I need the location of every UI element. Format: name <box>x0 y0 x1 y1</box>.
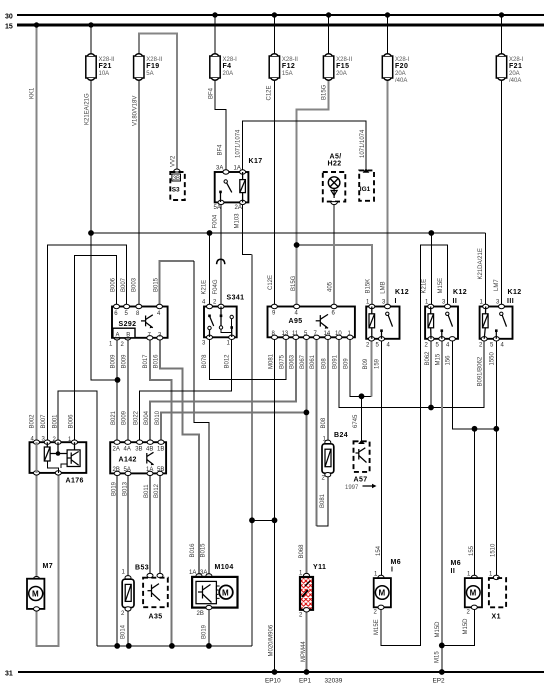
svg-text:B011: B011 <box>144 484 150 498</box>
svg-text:S341: S341 <box>227 295 245 302</box>
svg-text:B013: B013 <box>123 481 129 496</box>
svg-text:V180/V18V: V180/V18V <box>133 96 139 126</box>
svg-text:B08: B08 <box>321 417 327 428</box>
svg-text:1A: 1A <box>189 570 196 576</box>
svg-text:K12: K12 <box>453 289 467 296</box>
svg-text:B006: B006 <box>111 277 117 292</box>
svg-text:B15G: B15G <box>322 84 328 100</box>
svg-text:B007: B007 <box>121 277 127 292</box>
svg-text:B022: B022 <box>133 410 139 425</box>
svg-text:B006: B006 <box>68 414 74 429</box>
svg-text:S292: S292 <box>119 321 137 328</box>
svg-text:M15: M15 <box>435 353 441 365</box>
svg-text:M: M <box>379 589 386 598</box>
svg-text:/40A: /40A <box>395 78 407 84</box>
svg-text:154: 154 <box>376 545 382 556</box>
svg-text:B015: B015 <box>201 543 207 558</box>
svg-text:3B: 3B <box>173 176 180 182</box>
svg-text:M15D: M15D <box>435 621 441 638</box>
svg-text:B062: B062 <box>425 351 431 366</box>
svg-text:IG1: IG1 <box>360 186 371 193</box>
svg-text:A95: A95 <box>289 318 303 325</box>
svg-text:4B: 4B <box>146 447 153 453</box>
svg-text:K21E: K21E <box>202 280 208 295</box>
svg-text:156: 156 <box>446 355 452 366</box>
svg-text:F19: F19 <box>146 63 159 70</box>
svg-text:M103: M103 <box>234 213 240 229</box>
svg-text:B08: B08 <box>321 358 327 369</box>
svg-text:M15E: M15E <box>374 619 380 635</box>
svg-text:3A: 3A <box>216 166 223 172</box>
svg-text:M6: M6 <box>391 559 402 566</box>
svg-text:B009: B009 <box>111 354 117 369</box>
svg-text:F04G: F04G <box>213 279 219 294</box>
svg-text:VV2: VV2 <box>170 155 176 167</box>
svg-text:1A: 1A <box>234 166 241 172</box>
svg-text:Y11: Y11 <box>313 564 326 571</box>
svg-text:20A: 20A <box>509 71 520 77</box>
svg-text:B014: B014 <box>121 624 127 639</box>
svg-text:II: II <box>451 568 456 575</box>
svg-text:B15G: B15G <box>291 275 297 291</box>
svg-text:31: 31 <box>5 671 13 678</box>
svg-text:2A: 2A <box>113 447 120 453</box>
svg-text:B075: B075 <box>280 354 286 369</box>
svg-text:C12E: C12E <box>268 275 274 290</box>
svg-text:MPM44: MPM44 <box>301 641 307 662</box>
svg-text:F15: F15 <box>336 63 349 70</box>
svg-text:1A: 1A <box>146 467 153 473</box>
svg-text:2B: 2B <box>113 467 120 473</box>
svg-text:5B: 5B <box>157 467 164 473</box>
svg-text:M020/M906: M020/M906 <box>269 624 275 656</box>
svg-text:B: B <box>126 332 130 338</box>
svg-text:155: 155 <box>469 545 475 556</box>
svg-text:159: 159 <box>375 358 381 369</box>
svg-text:EP10: EP10 <box>265 678 281 685</box>
svg-text:A35: A35 <box>149 614 163 621</box>
svg-text:BF4: BF4 <box>218 144 224 156</box>
svg-text:B009: B009 <box>122 410 128 425</box>
svg-text:II: II <box>453 298 458 305</box>
svg-text:15: 15 <box>5 24 13 31</box>
svg-text:A176: A176 <box>66 478 84 485</box>
svg-text:B012: B012 <box>154 483 160 498</box>
svg-text:20A: 20A <box>336 71 347 77</box>
svg-text:1997: 1997 <box>345 485 359 491</box>
svg-text:1510: 1510 <box>490 543 496 557</box>
svg-text:I: I <box>395 298 397 305</box>
svg-text:4A: 4A <box>124 447 131 453</box>
svg-text:B53: B53 <box>135 565 149 572</box>
svg-text:B09: B09 <box>363 358 369 369</box>
svg-text:1071/1074: 1071/1074 <box>360 129 366 158</box>
svg-text:F4: F4 <box>223 63 232 70</box>
svg-text:2B: 2B <box>197 611 204 617</box>
svg-text:F004: F004 <box>213 214 219 228</box>
svg-text:A57: A57 <box>354 477 368 484</box>
svg-text:F21: F21 <box>99 63 112 70</box>
svg-text:1B: 1B <box>157 447 164 453</box>
svg-text:B002: B002 <box>30 414 36 429</box>
svg-text:M6: M6 <box>451 560 462 567</box>
svg-text:B091: B091 <box>333 354 339 369</box>
svg-text:EP1: EP1 <box>299 678 312 685</box>
svg-text:B016: B016 <box>190 543 196 558</box>
svg-text:30: 30 <box>5 14 13 21</box>
svg-text:B081: B081 <box>320 493 326 508</box>
svg-text:M: M <box>470 589 477 598</box>
svg-text:B24: B24 <box>334 432 348 439</box>
svg-text:B15K: B15K <box>366 279 372 294</box>
svg-text:KK1: KK1 <box>30 87 36 99</box>
svg-text:K21EA/21G: K21EA/21G <box>85 93 91 125</box>
svg-text:B004: B004 <box>144 410 150 425</box>
svg-text:B021: B021 <box>111 410 117 425</box>
svg-text:/40A: /40A <box>509 78 521 84</box>
svg-text:III: III <box>507 298 514 305</box>
svg-text:S3: S3 <box>172 187 180 194</box>
svg-text:K12: K12 <box>395 289 409 296</box>
svg-text:M15E: M15E <box>438 278 444 294</box>
svg-text:M: M <box>222 588 229 597</box>
svg-text:B010: B010 <box>155 410 161 425</box>
svg-text:B091/B062: B091/B062 <box>478 356 484 386</box>
svg-text:M104: M104 <box>215 564 234 571</box>
svg-text:F21: F21 <box>509 63 522 70</box>
svg-text:M: M <box>32 590 39 599</box>
svg-text:B016: B016 <box>153 354 159 369</box>
svg-text:6745: 6745 <box>353 414 359 428</box>
svg-text:A5/: A5/ <box>330 154 342 161</box>
svg-text:B09: B09 <box>344 358 350 369</box>
svg-text:B061: B061 <box>310 354 316 369</box>
svg-text:10A: 10A <box>99 71 110 77</box>
svg-text:B015: B015 <box>153 277 159 292</box>
svg-text:LM7: LM7 <box>494 279 500 291</box>
svg-text:M15D: M15D <box>463 618 469 635</box>
svg-text:K12: K12 <box>508 289 522 296</box>
svg-text:20A: 20A <box>223 71 234 77</box>
svg-text:B007: B007 <box>41 414 47 429</box>
svg-text:5A: 5A <box>124 467 131 473</box>
svg-text:M15: M15 <box>435 651 441 663</box>
svg-text:F12: F12 <box>282 63 295 70</box>
svg-text:B078: B078 <box>202 354 208 369</box>
svg-text:5A: 5A <box>214 205 221 211</box>
svg-text:B019: B019 <box>112 481 118 496</box>
svg-text:K21E: K21E <box>422 279 428 294</box>
svg-text:M081: M081 <box>268 353 274 369</box>
svg-text:15A: 15A <box>282 71 293 77</box>
svg-text:I: I <box>391 567 393 574</box>
svg-text:B068: B068 <box>299 544 305 559</box>
svg-text:F20: F20 <box>395 63 408 70</box>
svg-text:K21DA/21E: K21DA/21E <box>478 248 484 279</box>
svg-text:405: 405 <box>328 281 334 292</box>
svg-text:B001: B001 <box>53 414 59 429</box>
svg-text:1071/1074: 1071/1074 <box>236 129 242 158</box>
svg-text:B009: B009 <box>122 354 128 369</box>
svg-text:EP2: EP2 <box>433 678 446 685</box>
svg-text:5A: 5A <box>146 71 153 77</box>
svg-text:B019: B019 <box>202 624 208 639</box>
svg-text:X1: X1 <box>492 614 501 621</box>
svg-text:3B: 3B <box>135 447 142 453</box>
svg-text:1550: 1550 <box>490 351 496 365</box>
svg-text:A: A <box>116 332 120 338</box>
svg-text:B012: B012 <box>224 354 230 369</box>
svg-text:M7: M7 <box>43 563 54 570</box>
svg-text:B063: B063 <box>290 354 296 369</box>
svg-text:B017: B017 <box>143 354 149 369</box>
svg-text:BF4: BF4 <box>208 87 214 99</box>
svg-text:LMB: LMB <box>381 281 387 293</box>
svg-text:A142: A142 <box>119 457 137 464</box>
svg-text:20A: 20A <box>395 71 406 77</box>
svg-text:H22: H22 <box>328 161 342 168</box>
svg-text:K17: K17 <box>249 158 263 165</box>
svg-text:32039: 32039 <box>325 678 343 685</box>
svg-text:2A: 2A <box>235 205 242 211</box>
svg-text:B003: B003 <box>132 277 138 292</box>
svg-text:C12E: C12E <box>267 85 273 100</box>
svg-text:B067: B067 <box>300 354 306 369</box>
